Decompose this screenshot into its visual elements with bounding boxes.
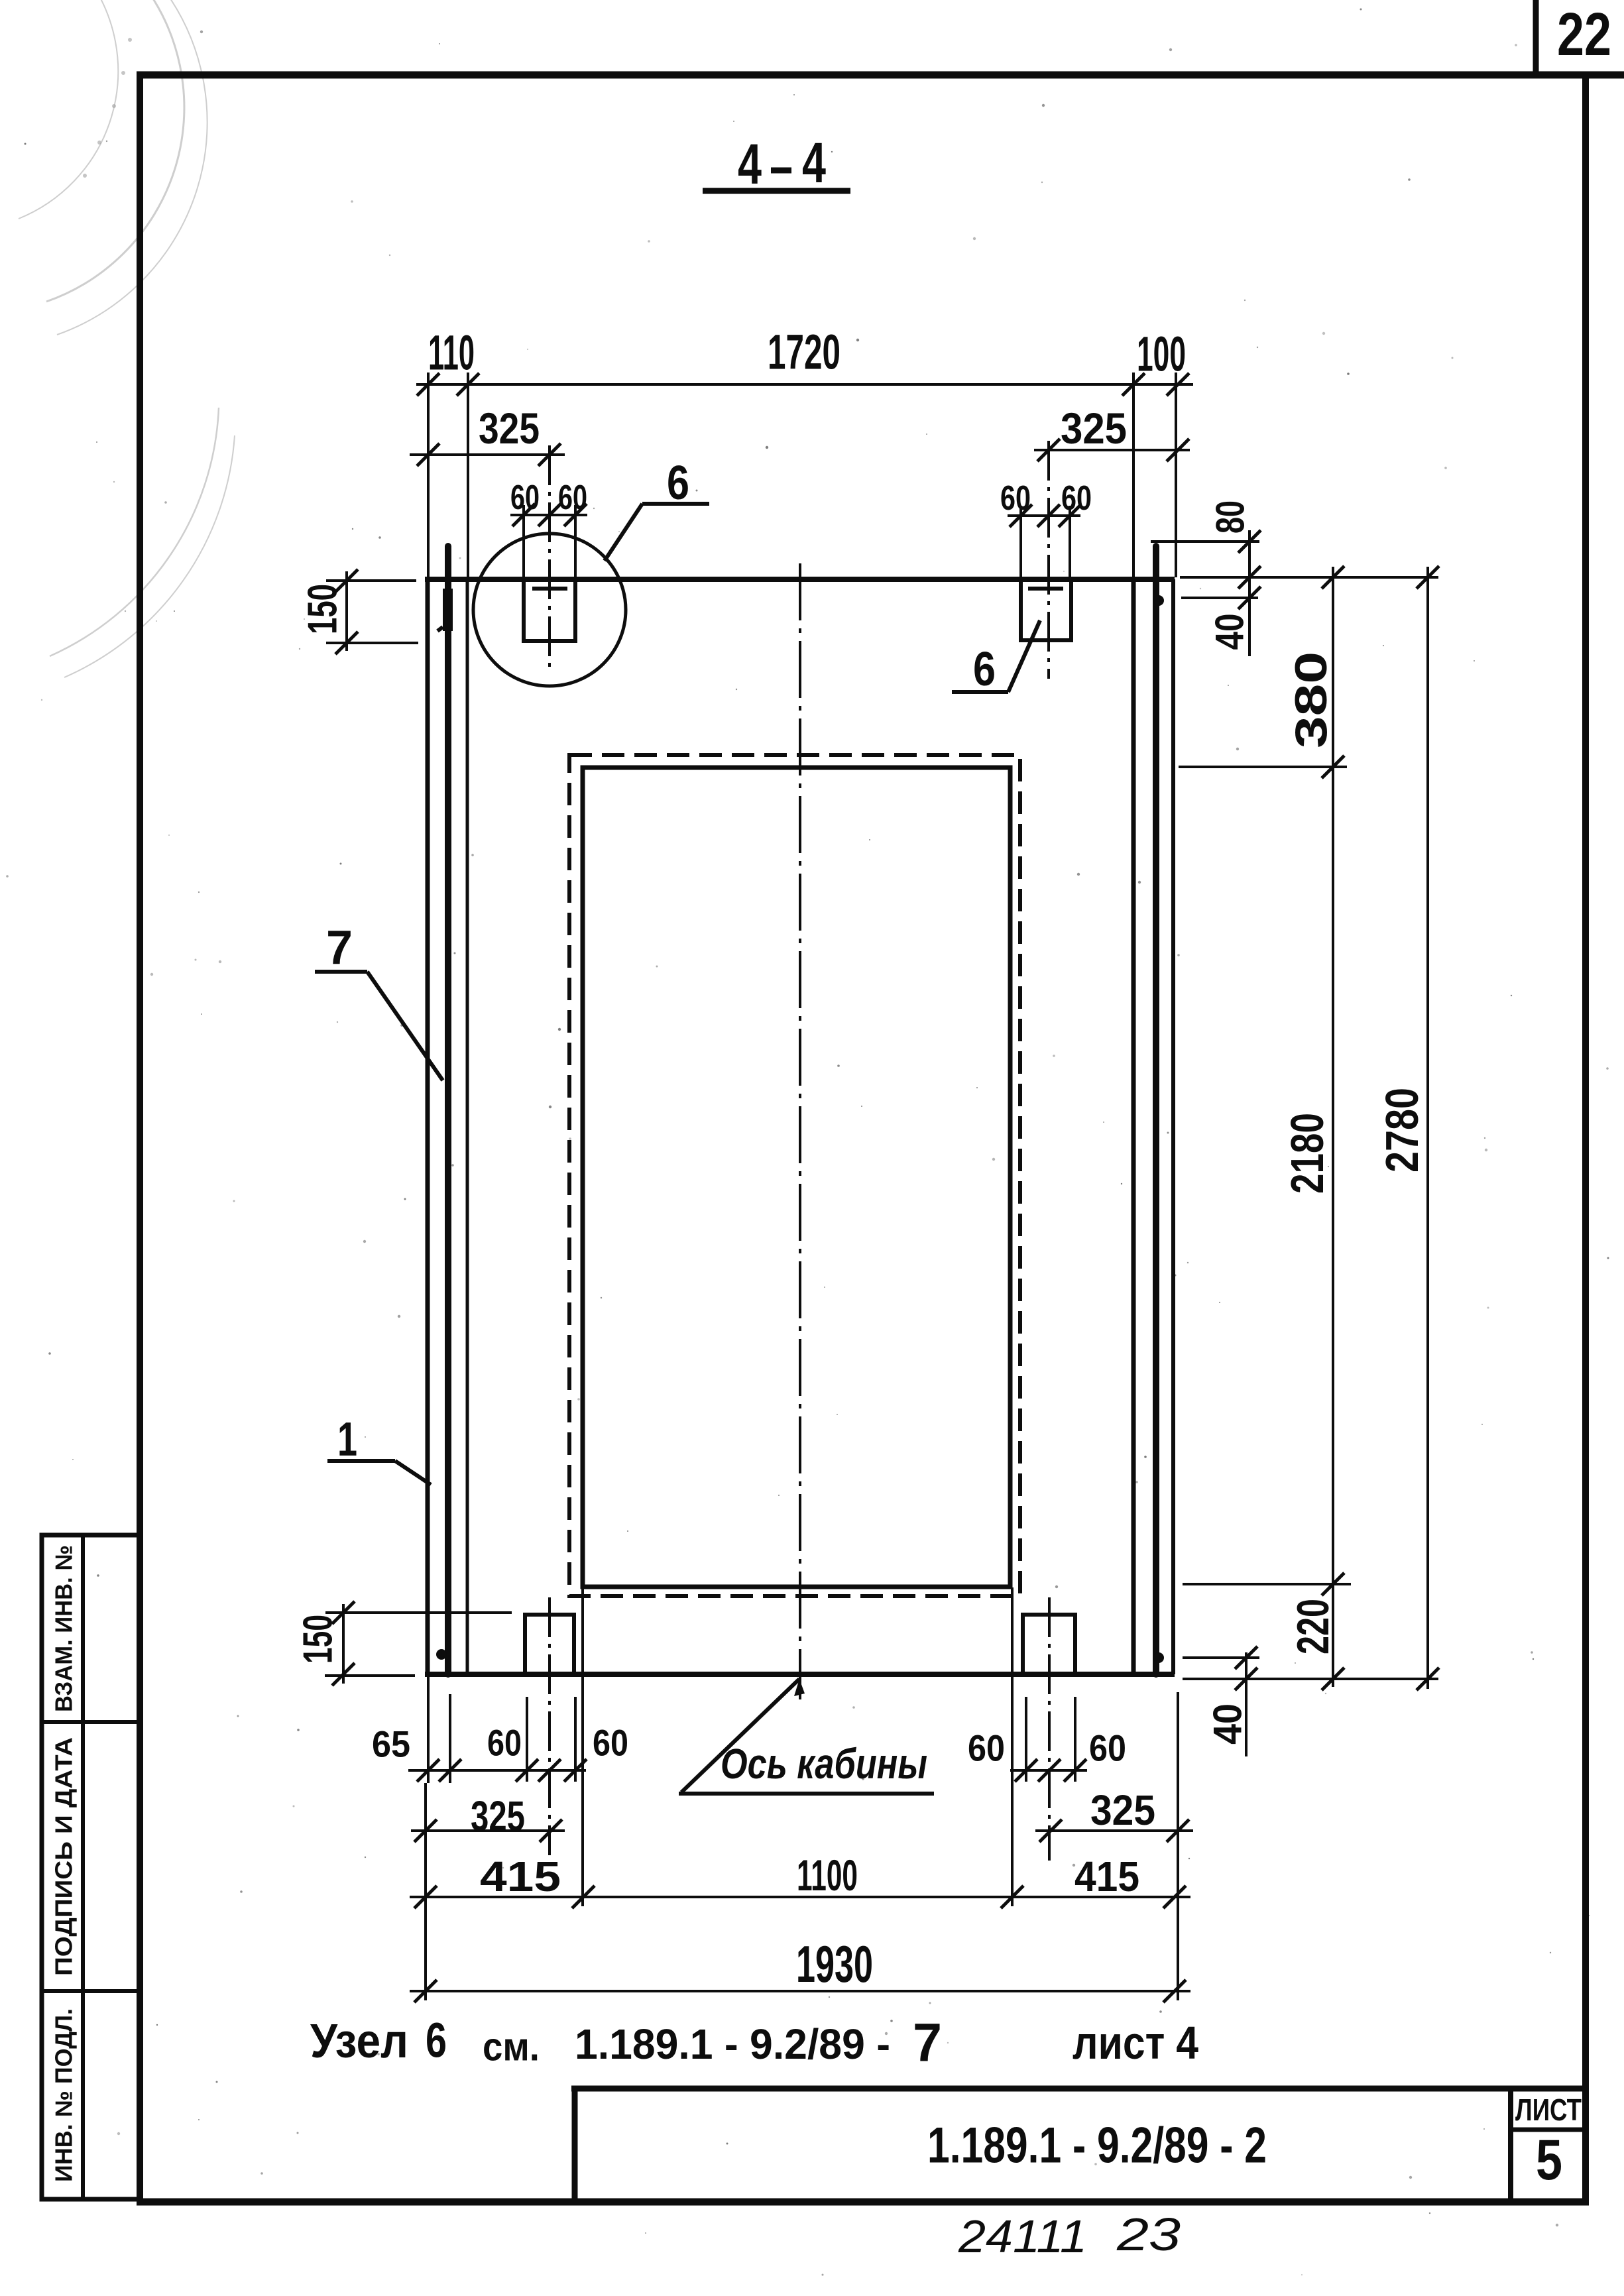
svg-text:150: 150: [296, 1615, 341, 1664]
svg-text:325: 325: [471, 1792, 525, 1840]
svg-text:ИНВ. № ПОДЛ.: ИНВ. № ПОДЛ.: [50, 2008, 78, 2182]
svg-text:325: 325: [479, 404, 540, 453]
svg-text:6: 6: [426, 2013, 447, 2068]
svg-text:65: 65: [372, 1723, 410, 1765]
svg-text:4: 4: [738, 133, 762, 196]
svg-text:60: 60: [510, 479, 540, 517]
svg-text:4: 4: [802, 131, 826, 195]
svg-text:22: 22: [1557, 1, 1611, 68]
svg-text:24111: 24111: [958, 2210, 1087, 2262]
svg-text:40: 40: [1208, 614, 1252, 650]
svg-text:60: 60: [1089, 1727, 1126, 1769]
svg-text:1.189.1 - 9.2/89 -: 1.189.1 - 9.2/89 -: [575, 2020, 890, 2068]
svg-text:60: 60: [487, 1722, 522, 1764]
svg-text:60: 60: [593, 1722, 628, 1764]
svg-text:Узел: Узел: [310, 2015, 408, 2068]
svg-text:1.189.1 - 9.2/89 - 2: 1.189.1 - 9.2/89 - 2: [927, 2118, 1267, 2174]
svg-text:6: 6: [973, 643, 996, 696]
svg-text:40: 40: [1206, 1703, 1250, 1745]
svg-text:лист 4: лист 4: [1073, 2017, 1198, 2069]
svg-text:7: 7: [913, 2013, 942, 2073]
svg-text:23: 23: [1116, 2209, 1181, 2260]
svg-text:325: 325: [1061, 404, 1127, 453]
svg-text:1: 1: [337, 1413, 357, 1466]
svg-text:5: 5: [1536, 2128, 1562, 2192]
svg-text:2180: 2180: [1281, 1113, 1333, 1194]
svg-text:220: 220: [1288, 1599, 1338, 1654]
svg-text:80: 80: [1208, 500, 1253, 534]
svg-text:см.: см.: [483, 2025, 540, 2069]
svg-text:7: 7: [326, 921, 353, 974]
svg-text:ПОДПИСЬ И ДАТА: ПОДПИСЬ И ДАТА: [50, 1737, 78, 1976]
svg-text:60: 60: [1000, 479, 1031, 518]
svg-text:110: 110: [428, 325, 475, 380]
svg-text:60: 60: [1061, 479, 1092, 518]
svg-text:60: 60: [558, 479, 587, 517]
svg-text:1100: 1100: [797, 1851, 858, 1900]
svg-text:150: 150: [300, 584, 346, 634]
svg-text:1720: 1720: [768, 325, 841, 380]
svg-text:60: 60: [968, 1727, 1005, 1769]
svg-text:325: 325: [1090, 1786, 1155, 1834]
svg-text:Ось кабины: Ось кабины: [721, 1740, 927, 1788]
svg-text:2780: 2780: [1376, 1088, 1428, 1173]
svg-text:415: 415: [1074, 1853, 1139, 1900]
svg-text:380: 380: [1286, 652, 1336, 748]
svg-text:1930: 1930: [796, 1935, 873, 1993]
svg-text:6: 6: [667, 457, 689, 510]
svg-text:ВЗАМ. ИНВ. №: ВЗАМ. ИНВ. №: [50, 1545, 78, 1712]
svg-text:415: 415: [480, 1853, 561, 1900]
svg-text:ЛИСТ: ЛИСТ: [1515, 2093, 1582, 2127]
svg-text:100: 100: [1137, 327, 1186, 382]
